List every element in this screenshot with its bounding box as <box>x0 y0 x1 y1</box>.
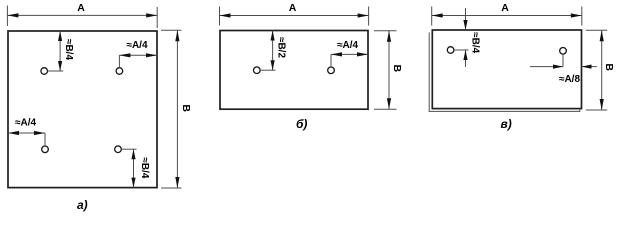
leader from left hole <box>454 49 469 51</box>
hole top-left (fig a) <box>41 68 48 75</box>
plate a outline <box>8 31 157 188</box>
leader from left hole <box>260 69 276 71</box>
svg-text:≈A/4: ≈A/4 <box>15 118 36 129</box>
dimension B (fig v) extension lines <box>586 30 607 110</box>
svg-text:≈B/4: ≈B/4 <box>470 32 481 53</box>
svg-text:≈A/4: ≈A/4 <box>337 40 358 51</box>
dimension B (fig b) line with arrows <box>387 31 391 109</box>
svg-text:A: A <box>77 2 85 14</box>
leader from right hole <box>562 54 564 67</box>
dimension A (fig b) extension ticks <box>220 7 369 26</box>
hole right (fig v) <box>560 48 567 55</box>
hole bottom-right (fig a) <box>115 146 122 153</box>
bent flange left edge (fig v) <box>428 33 430 112</box>
dimension A (fig a) line with arrows <box>7 13 157 17</box>
plate v outline <box>432 30 581 109</box>
svg-text:≈B/4: ≈B/4 <box>139 157 150 178</box>
svg-text:B: B <box>603 63 615 71</box>
dimension A (fig v) extension ticks <box>432 7 582 26</box>
svg-text:≈A/8: ≈A/8 <box>559 74 580 85</box>
svg-text:≈B/2: ≈B/2 <box>275 37 286 58</box>
hole left (fig v) <box>447 47 454 54</box>
svg-text:B: B <box>391 65 403 73</box>
dimension B (fig b) extension lines <box>374 31 397 109</box>
svg-text:≈B/4: ≈B/4 <box>63 39 74 60</box>
svg-text:в): в) <box>501 117 512 131</box>
leader from top-left hole <box>48 70 64 72</box>
hole right (fig b) <box>328 67 335 74</box>
dimension B/2 (fig b) <box>271 31 275 71</box>
dimension A (fig v) line with arrows <box>432 13 582 17</box>
dimension B/4 top-left (fig a) <box>58 31 62 71</box>
dimension A (fig b) line with arrows <box>220 13 369 17</box>
leader from bottom-left hole <box>44 133 46 146</box>
dimension B (fig v) line with arrows <box>600 30 604 110</box>
dimension A/4 (fig b) <box>331 52 368 56</box>
dimension B (fig a) extension lines <box>161 30 182 188</box>
dimension A/4 top-right (fig a) <box>119 53 157 57</box>
svg-text:A: A <box>289 2 297 14</box>
leader from right hole <box>330 54 332 67</box>
svg-text:а): а) <box>77 198 88 212</box>
hole bottom-left (fig a) <box>42 146 49 153</box>
svg-text:б): б) <box>296 117 307 131</box>
dimension B (fig a) line with arrows <box>175 30 179 188</box>
leader from top-right hole <box>118 55 120 67</box>
svg-text:≈A/4: ≈A/4 <box>126 40 147 51</box>
dimension B/4 outside arrows (fig v) <box>463 8 467 67</box>
hole top-right (fig a) <box>116 68 123 75</box>
dimension A (fig a) extension ticks <box>7 6 157 29</box>
plate b outline <box>220 31 368 110</box>
hole left (fig b) <box>253 67 260 74</box>
dimension A/8 outside arrows (fig v) <box>530 65 597 69</box>
leader from bottom-right hole <box>121 148 136 150</box>
dimension B/4 bottom-right (fig a) <box>131 149 135 187</box>
svg-text:A: A <box>501 2 509 14</box>
dimension A/4 bottom-left (fig a) <box>8 131 45 135</box>
svg-text:B: B <box>180 104 192 112</box>
bent flange bottom edge (fig v) <box>429 109 580 112</box>
